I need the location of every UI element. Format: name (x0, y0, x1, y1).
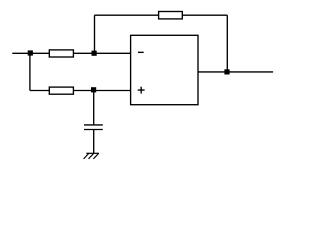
node B junction (91, 87, 96, 92)
wire feedback top right (182, 14, 227, 16)
node OUT junction (224, 69, 229, 74)
capacitor C1 (84, 125, 103, 130)
ground (84, 153, 99, 159)
wire output (198, 71, 273, 73)
resistor R2 (49, 87, 73, 94)
wire bottom to R2 (30, 90, 49, 92)
wire R2 to op-amp non-inverting input (73, 90, 130, 92)
wire feedback vertical up from node A (94, 15, 96, 53)
resistor R1 (49, 50, 73, 57)
resistor R3 feedback (159, 12, 183, 19)
wire node B down to capacitor (93, 90, 95, 125)
wire feedback top left (95, 14, 159, 16)
wire R1 to node A (73, 52, 94, 54)
node A junction (92, 51, 97, 56)
wire feedback right vertical (226, 15, 228, 72)
op-amp U1 (131, 35, 198, 104)
wire capacitor to ground (93, 130, 95, 154)
wire input (12, 52, 49, 54)
wire node A to op-amp inverting input (94, 52, 131, 54)
wire left vertical (29, 53, 31, 90)
node IN junction (28, 50, 33, 55)
